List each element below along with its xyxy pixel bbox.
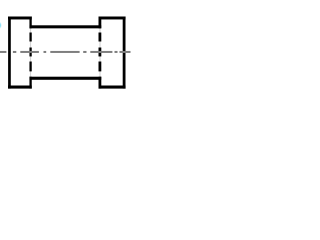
right flange inner edge solid bottom segment [99,77,102,89]
right flange inner edge faint middle segment [99,28,100,76]
hidden line left (dashed) [29,33,31,72]
right flange inner edge solid top segment [99,17,102,29]
left flange inner edge solid top segment [29,17,31,29]
left flange left edge [8,17,11,89]
right flange top edge [99,17,126,20]
right flange bottom band [99,86,126,89]
left flange inner edge solid bottom segment [29,77,31,89]
right flange right edge [123,17,126,89]
centerline (dash-dot, gray) [0,51,131,53]
left flange top edge [8,17,32,20]
background [0,0,137,99]
hidden line right (dashed) [99,33,102,72]
barrel top edge [29,25,101,28]
mechanical drawing: flanged shaft/spool front view [0,0,137,99]
left flange bottom band [8,86,32,89]
barrel bottom edge [29,77,101,80]
left flange inner edge faint middle segment [30,28,31,76]
cyan artifact at left edge [0,21,2,29]
